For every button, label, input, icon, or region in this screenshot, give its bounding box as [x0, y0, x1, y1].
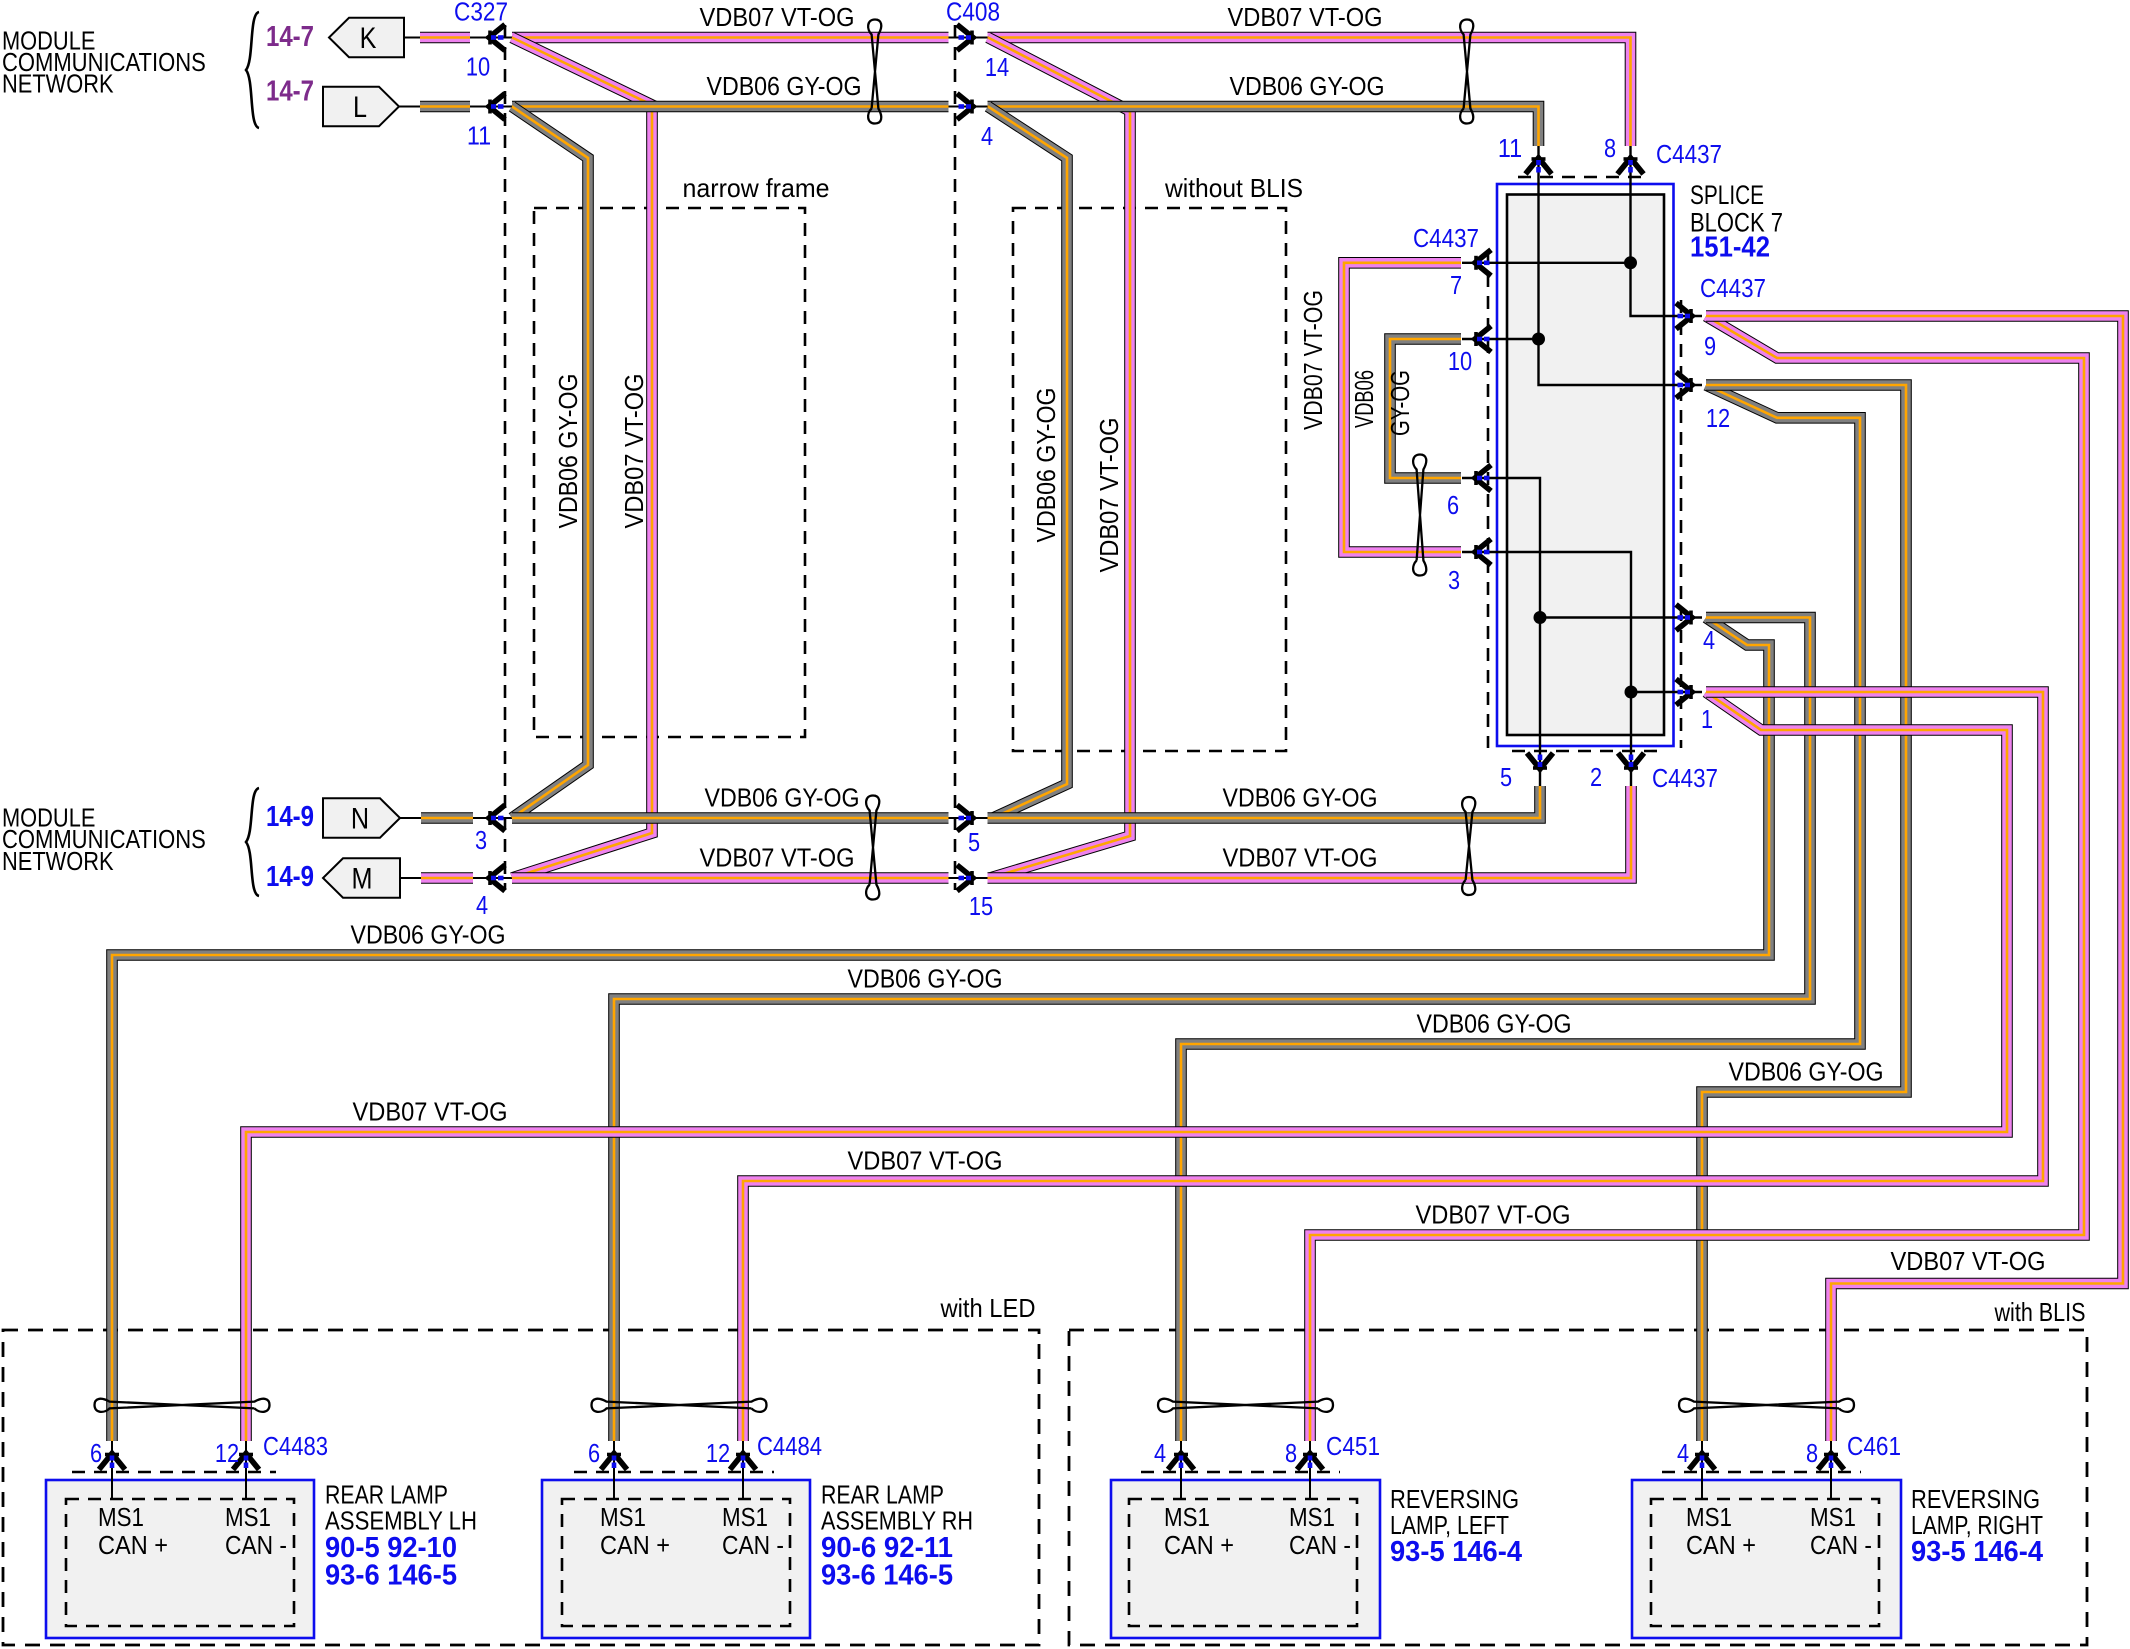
svg-text:14-9: 14-9 — [266, 801, 314, 833]
svg-text:93-6 146-5: 93-6 146-5 — [325, 1560, 457, 1592]
svg-text:MS1: MS1 — [1686, 1502, 1732, 1532]
svg-text:C408: C408 — [946, 0, 1000, 27]
svg-text:C4437: C4437 — [1652, 763, 1718, 793]
svg-text:NETWORK: NETWORK — [2, 69, 114, 99]
svg-text:C4484: C4484 — [757, 1431, 822, 1461]
svg-text:C451: C451 — [1326, 1431, 1380, 1461]
svg-text:VDB06 GY-OG: VDB06 GY-OG — [705, 783, 860, 813]
svg-text:CAN +: CAN + — [1164, 1530, 1234, 1560]
svg-text:VDB07 VT-OG: VDB07 VT-OG — [848, 1146, 1003, 1176]
svg-text:narrow frame: narrow frame — [683, 173, 830, 203]
svg-text:11: 11 — [467, 121, 491, 151]
svg-text:93-5 146-4: 93-5 146-4 — [1911, 1536, 2043, 1568]
svg-text:SPLICE: SPLICE — [1690, 180, 1764, 210]
svg-text:9: 9 — [1704, 331, 1716, 361]
svg-text:VDB06 GY-OG: VDB06 GY-OG — [1417, 1009, 1572, 1039]
svg-text:8: 8 — [1285, 1438, 1297, 1468]
svg-text:C4483: C4483 — [263, 1431, 328, 1461]
svg-text:CAN +: CAN + — [98, 1530, 168, 1560]
svg-text:2: 2 — [1590, 762, 1602, 792]
svg-text:VDB06 GY-OG: VDB06 GY-OG — [553, 374, 583, 529]
svg-text:C327: C327 — [454, 0, 508, 27]
svg-text:4: 4 — [981, 121, 993, 151]
svg-text:11: 11 — [1498, 133, 1522, 163]
svg-text:CAN -: CAN - — [722, 1530, 784, 1560]
svg-text:M: M — [352, 863, 373, 896]
svg-text:4: 4 — [1154, 1438, 1166, 1468]
svg-text:14: 14 — [985, 52, 1009, 82]
svg-text:151-42: 151-42 — [1690, 232, 1770, 264]
svg-text:12: 12 — [706, 1438, 730, 1468]
svg-text:VDB07 VT-OG: VDB07 VT-OG — [619, 374, 649, 529]
svg-text:15: 15 — [969, 891, 993, 921]
svg-text:C4437: C4437 — [1700, 273, 1766, 303]
svg-text:L: L — [353, 91, 367, 124]
svg-text:with BLIS: with BLIS — [1994, 1297, 2086, 1327]
svg-text:N: N — [351, 803, 369, 836]
svg-text:C4437: C4437 — [1413, 223, 1479, 253]
svg-text:93-5 146-4: 93-5 146-4 — [1390, 1536, 1522, 1568]
svg-text:5: 5 — [968, 827, 980, 857]
svg-text:MS1: MS1 — [1289, 1502, 1335, 1532]
svg-text:VDB06 GY-OG: VDB06 GY-OG — [351, 920, 506, 950]
svg-text:VDB07 VT-OG: VDB07 VT-OG — [700, 2, 855, 32]
svg-text:14-9: 14-9 — [266, 861, 314, 893]
svg-text:3: 3 — [1448, 565, 1460, 595]
svg-text:CAN +: CAN + — [1686, 1530, 1756, 1560]
svg-text:8: 8 — [1806, 1438, 1818, 1468]
svg-text:12: 12 — [1706, 403, 1730, 433]
svg-text:VDB06: VDB06 — [1349, 370, 1379, 428]
svg-text:CAN -: CAN - — [1289, 1530, 1351, 1560]
svg-text:CAN -: CAN - — [1810, 1530, 1872, 1560]
svg-text:VDB07 VT-OG: VDB07 VT-OG — [1094, 418, 1124, 573]
svg-text:with LED: with LED — [940, 1293, 1036, 1323]
svg-text:VDB07 VT-OG: VDB07 VT-OG — [1228, 2, 1383, 32]
svg-text:4: 4 — [476, 890, 488, 920]
svg-text:7: 7 — [1450, 270, 1462, 300]
svg-text:4: 4 — [1677, 1438, 1689, 1468]
svg-text:NETWORK: NETWORK — [2, 846, 114, 876]
svg-text:without BLIS: without BLIS — [1164, 173, 1303, 203]
svg-text:6: 6 — [1447, 490, 1459, 520]
svg-text:VDB07 VT-OG: VDB07 VT-OG — [1223, 843, 1378, 873]
svg-text:VDB07 VT-OG: VDB07 VT-OG — [1891, 1246, 2046, 1276]
svg-text:10: 10 — [466, 52, 490, 82]
svg-text:VDB06 GY-OG: VDB06 GY-OG — [1031, 388, 1061, 543]
svg-text:VDB06 GY-OG: VDB06 GY-OG — [1223, 783, 1378, 813]
svg-text:VDB06 GY-OG: VDB06 GY-OG — [707, 71, 862, 101]
svg-text:C4437: C4437 — [1656, 139, 1722, 169]
svg-text:VDB07 VT-OG: VDB07 VT-OG — [1298, 290, 1328, 430]
svg-text:14-7: 14-7 — [266, 76, 314, 108]
svg-text:MS1: MS1 — [225, 1502, 271, 1532]
svg-text:ASSEMBLY RH: ASSEMBLY RH — [821, 1506, 973, 1536]
svg-text:MS1: MS1 — [1164, 1502, 1210, 1532]
svg-text:VDB07 VT-OG: VDB07 VT-OG — [353, 1097, 508, 1127]
svg-text:VDB07 VT-OG: VDB07 VT-OG — [700, 843, 855, 873]
svg-text:C461: C461 — [1847, 1431, 1901, 1461]
svg-text:K: K — [360, 22, 377, 55]
svg-text:CAN +: CAN + — [600, 1530, 670, 1560]
svg-text:MS1: MS1 — [722, 1502, 768, 1532]
svg-text:8: 8 — [1604, 133, 1616, 163]
svg-text:VDB07 VT-OG: VDB07 VT-OG — [1416, 1200, 1571, 1230]
svg-text:12: 12 — [215, 1438, 239, 1468]
svg-text:5: 5 — [1500, 762, 1512, 792]
svg-text:93-6 146-5: 93-6 146-5 — [821, 1560, 953, 1592]
svg-text:GY-OG: GY-OG — [1385, 370, 1415, 436]
svg-text:MS1: MS1 — [1810, 1502, 1856, 1532]
svg-text:10: 10 — [1448, 346, 1472, 376]
svg-text:1: 1 — [1701, 704, 1713, 734]
svg-text:VDB06 GY-OG: VDB06 GY-OG — [1230, 71, 1385, 101]
svg-text:VDB06 GY-OG: VDB06 GY-OG — [1729, 1057, 1884, 1087]
svg-text:3: 3 — [475, 825, 487, 855]
svg-text:MS1: MS1 — [600, 1502, 646, 1532]
svg-text:ASSEMBLY LH: ASSEMBLY LH — [325, 1506, 477, 1536]
svg-text:CAN -: CAN - — [225, 1530, 287, 1560]
svg-text:MS1: MS1 — [98, 1502, 144, 1532]
svg-text:VDB06 GY-OG: VDB06 GY-OG — [848, 964, 1003, 994]
svg-text:4: 4 — [1703, 625, 1715, 655]
svg-text:6: 6 — [90, 1438, 102, 1468]
svg-text:14-7: 14-7 — [266, 21, 314, 53]
svg-text:6: 6 — [588, 1438, 600, 1468]
